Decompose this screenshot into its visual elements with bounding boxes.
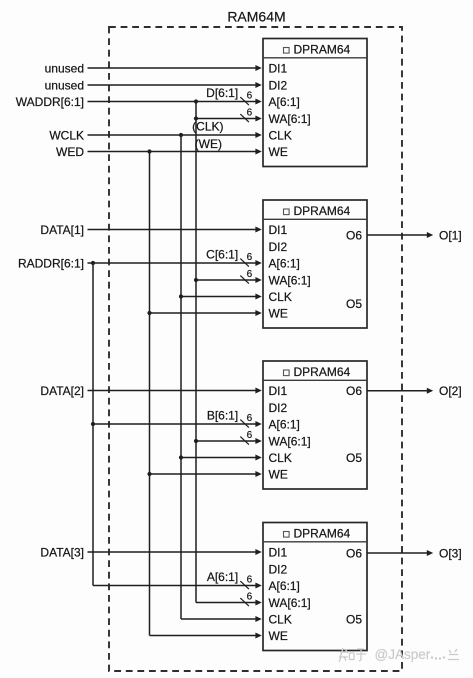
wire branch to U3 WA[6:1] — [196, 438, 262, 444]
svg-text:DATA[1]: DATA[1] — [40, 223, 84, 237]
bus slash U4 WA — [240, 598, 249, 606]
svg-text:WA[6:1]: WA[6:1] — [269, 112, 311, 126]
svg-text:WE: WE — [269, 467, 288, 481]
wire RADDR[6:1] bus to U2 A[6:1] — [88, 260, 262, 266]
junction WCLK/U3-CLK — [179, 455, 183, 459]
svg-text:O6: O6 — [346, 384, 362, 398]
bus slash U2 WA — [240, 276, 249, 284]
wire branch to U3 A[6:1] — [93, 421, 262, 427]
wire branch to U1 WA[6:1] — [196, 116, 262, 122]
wire branch to U4 A[6:1] — [93, 583, 262, 589]
svg-text:O[1]: O[1] — [439, 228, 462, 242]
svg-text:B[6:1]: B[6:1] — [207, 409, 238, 423]
svg-text:CLK: CLK — [269, 612, 292, 626]
junction WCLK/U1-CLK — [179, 133, 183, 137]
junction WADDR/U1-A — [194, 99, 198, 103]
wire U O6 to O[1] — [367, 232, 433, 238]
svg-text:DPRAM64: DPRAM64 — [294, 43, 351, 57]
svg-text:CLK: CLK — [269, 128, 292, 142]
svg-text:O[3]: O[3] — [439, 546, 462, 560]
svg-text:O6: O6 — [346, 228, 362, 242]
wire branch to U2 WE — [150, 310, 262, 316]
svg-text:unused: unused — [45, 78, 84, 92]
svg-text:D[6:1]: D[6:1] — [206, 86, 238, 100]
svg-text:CLK: CLK — [269, 290, 292, 304]
wire DATA[1] to U2 DI1 — [88, 227, 262, 233]
bus slash U3 WA — [240, 437, 249, 445]
svg-text:6: 6 — [247, 592, 253, 603]
svg-text:WA[6:1]: WA[6:1] — [269, 273, 311, 287]
svg-text:DATA[3]: DATA[3] — [40, 545, 84, 559]
svg-text:C[6:1]: C[6:1] — [206, 248, 238, 262]
svg-text:WE: WE — [269, 629, 288, 643]
svg-text:6: 6 — [247, 108, 253, 119]
DPRAM64 block U4 — [263, 523, 367, 651]
svg-text:DI2: DI2 — [269, 240, 288, 254]
svg-text:A[6:1]: A[6:1] — [269, 95, 300, 109]
wire branch to U2 CLK — [181, 294, 262, 300]
svg-text:6: 6 — [247, 430, 253, 441]
wire unused to U1 DI1 — [88, 65, 262, 71]
svg-text:WADDR[6:1]: WADDR[6:1] — [16, 95, 84, 109]
junction WED/U2-WE — [147, 311, 151, 315]
dashed RAM64M boundary box — [109, 27, 402, 671]
svg-text:6: 6 — [247, 269, 253, 280]
wire WADDR[6:1] bus to U1 A[6:1] — [88, 99, 262, 105]
svg-text:(WE): (WE) — [195, 137, 222, 151]
svg-text:WE: WE — [269, 306, 288, 320]
wire DATA[2] to U3 DI1 — [88, 388, 262, 394]
bus slash U2 A — [240, 259, 249, 267]
svg-text:A[6:1]: A[6:1] — [269, 579, 300, 593]
svg-text:WED: WED — [56, 145, 84, 159]
svg-text:WA[6:1]: WA[6:1] — [269, 596, 311, 610]
svg-text:DI1: DI1 — [269, 545, 288, 559]
svg-text:DI2: DI2 — [269, 562, 288, 576]
svg-text:DI1: DI1 — [269, 61, 288, 75]
svg-text:6: 6 — [247, 413, 253, 424]
junction WADDR/U2-WA — [194, 278, 198, 282]
wire U O6 to O[3] — [367, 550, 433, 556]
svg-text:RADDR[6:1]: RADDR[6:1] — [18, 256, 84, 270]
svg-text:DI1: DI1 — [269, 223, 288, 237]
wire WED vertical feed — [149, 152, 151, 636]
svg-text:O5: O5 — [346, 451, 362, 465]
svg-text:DI2: DI2 — [269, 78, 288, 92]
junction WED/U1-WE — [147, 149, 151, 153]
bus slash U3 A — [240, 420, 249, 428]
wire WADDR vertical feed — [195, 102, 197, 603]
wire DATA[3] to U4 DI1 — [88, 549, 262, 555]
DPRAM64 block U1 — [263, 39, 367, 167]
wire WCLK to U1 CLK — [88, 132, 262, 138]
wire RADDR vertical feed — [92, 263, 94, 586]
wire WCLK vertical feed — [180, 135, 182, 619]
svg-text:DPRAM64: DPRAM64 — [294, 365, 351, 379]
svg-text:A[6:1]: A[6:1] — [269, 256, 300, 270]
wire branch to U4 CLK — [181, 616, 262, 622]
watermark 知乎 glyphs — [339, 648, 354, 662]
svg-text:O5: O5 — [346, 613, 362, 627]
svg-text:O[2]: O[2] — [439, 384, 462, 398]
svg-text:DI1: DI1 — [269, 384, 288, 398]
svg-text:WA[6:1]: WA[6:1] — [269, 434, 311, 448]
junction WADDR/U1-WA — [194, 116, 198, 120]
DPRAM64 block U2 — [263, 200, 367, 328]
svg-text:CLK: CLK — [269, 451, 292, 465]
svg-text:DPRAM64: DPRAM64 — [294, 527, 351, 541]
svg-text:unused: unused — [45, 61, 84, 75]
wire branch to U3 CLK — [181, 455, 262, 461]
wire branch to U4 WE — [150, 633, 262, 639]
wire branch to U2 WA[6:1] — [196, 277, 262, 283]
svg-text:6: 6 — [247, 91, 253, 102]
svg-text:WE: WE — [269, 145, 288, 159]
junction RADDR main — [91, 261, 95, 265]
junction RADDR/U3-A — [91, 422, 95, 426]
junction WED/U3-WE — [147, 472, 151, 476]
svg-text:DI2: DI2 — [269, 401, 288, 415]
svg-text:DATA[2]: DATA[2] — [40, 384, 84, 398]
wire branch to U4 WA[6:1] — [196, 600, 262, 606]
watermark 兰 glyph — [448, 649, 459, 660]
wire unused to U1 DI2 — [88, 82, 262, 88]
svg-text:WCLK: WCLK — [49, 128, 84, 142]
svg-text:O6: O6 — [346, 546, 362, 560]
svg-text:RAM64M: RAM64M — [227, 9, 285, 25]
DPRAM64 block U3 — [263, 361, 367, 489]
svg-text:A[6:1]: A[6:1] — [269, 417, 300, 431]
svg-text:A[6:1]: A[6:1] — [207, 570, 238, 584]
wire U O6 to O[2] — [367, 388, 433, 394]
svg-text:(CLK): (CLK) — [192, 119, 223, 133]
wire WED to U1 WE — [88, 149, 262, 155]
svg-text:@JAsper: @JAsper — [375, 647, 431, 662]
svg-text:6: 6 — [247, 575, 253, 586]
svg-text:DPRAM64: DPRAM64 — [294, 204, 351, 218]
bus slash U4 A — [240, 581, 249, 589]
wire branch to U3 WE — [150, 471, 262, 477]
svg-text:O5: O5 — [346, 297, 362, 311]
junction WADDR/U3-WA — [194, 439, 198, 443]
junction WCLK/U2-CLK — [179, 294, 183, 298]
watermark small dots 灬 — [431, 656, 445, 659]
bus slash U1 WA — [240, 114, 249, 122]
svg-text:6: 6 — [247, 252, 253, 263]
bus slash U1 A — [240, 97, 249, 105]
